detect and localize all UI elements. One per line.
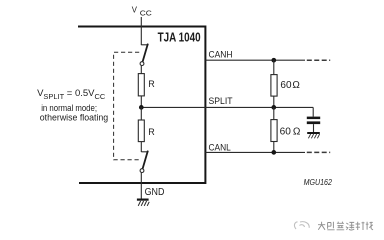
svg-text:MGU162: MGU162 bbox=[304, 177, 332, 187]
wire SPLIT rail bbox=[141, 106, 313, 108]
capacitor C1 top plate bbox=[307, 117, 320, 120]
wire RT1 to SPLIT bbox=[273, 96, 275, 107]
svg-text:in normal mode;: in normal mode; bbox=[41, 103, 97, 113]
svg-text:CANH: CANH bbox=[209, 49, 233, 60]
switch S1 upper: fixed contact jog bbox=[141, 44, 148, 46]
wire split node to R2 bbox=[140, 107, 142, 120]
svg-text:R: R bbox=[148, 127, 155, 137]
wire S1 to R1 bbox=[140, 66, 142, 74]
wire SPLIT to capacitor branch bbox=[312, 107, 314, 116]
resistor RT1 body 60 ohm bbox=[271, 75, 277, 97]
wire R2 to S2 bbox=[140, 142, 142, 152]
wire VCC lead bbox=[140, 17, 142, 45]
resistor R2 body bbox=[138, 120, 144, 142]
switch S2 lever bbox=[143, 151, 148, 169]
ground symbol bar bbox=[137, 199, 149, 201]
switch S2 pivot circle bbox=[140, 169, 144, 173]
svg-text:SPLIT: SPLIT bbox=[209, 96, 233, 107]
chip TJA1040 outline bbox=[78, 27, 205, 184]
node junction SPLIT bbox=[271, 105, 276, 110]
svg-text:60 Ω: 60 Ω bbox=[280, 80, 300, 91]
svg-text:TJA 1040: TJA 1040 bbox=[158, 30, 201, 44]
resistor R1 body bbox=[138, 74, 144, 96]
svg-text:VSPLIT = 0.5VCC: VSPLIT = 0.5VCC bbox=[37, 88, 105, 101]
ground symbol hatching bbox=[138, 201, 149, 206]
switch S1 lever bbox=[143, 44, 148, 62]
watermark logo bbox=[294, 222, 309, 229]
capacitor C1 bottom plate bbox=[307, 121, 320, 124]
ground symbol capacitor bar bbox=[307, 132, 320, 134]
wire CANH to RT1 bbox=[273, 60, 275, 74]
wire CANL line bbox=[205, 151, 305, 153]
switch S1 pivot circle bbox=[140, 62, 144, 66]
dashed actuator coupling box bbox=[114, 52, 140, 160]
node junction on SPLIT at R divider bbox=[139, 105, 144, 110]
node junction CANL bbox=[271, 150, 276, 155]
wire CANH line bbox=[205, 59, 305, 61]
wire CANL dashed continuation bbox=[307, 151, 330, 153]
wire R1 to split node bbox=[140, 96, 142, 108]
switch S2 lower: fixed contact jog bbox=[141, 151, 148, 153]
svg-text:R: R bbox=[148, 79, 155, 89]
node junction CANH bbox=[271, 58, 276, 63]
wire CANH dashed continuation bbox=[307, 59, 330, 61]
watermark CJK text strokes bbox=[318, 222, 373, 230]
svg-text:CC: CC bbox=[140, 9, 153, 18]
ground symbol capacitor hatching bbox=[308, 134, 319, 138]
wire S2 to GND bbox=[140, 173, 142, 199]
wire capacitor to ground bbox=[313, 124, 315, 132]
svg-text:otherwise floating: otherwise floating bbox=[40, 113, 108, 123]
svg-text:GND: GND bbox=[145, 187, 165, 198]
svg-text:V: V bbox=[132, 5, 138, 14]
wire RT2 to CANL bbox=[273, 142, 275, 153]
svg-text:60 Ω: 60 Ω bbox=[280, 126, 301, 137]
resistor RT2 body 60 ohm bbox=[271, 120, 277, 142]
wire SPLIT to RT2 bbox=[273, 107, 275, 119]
